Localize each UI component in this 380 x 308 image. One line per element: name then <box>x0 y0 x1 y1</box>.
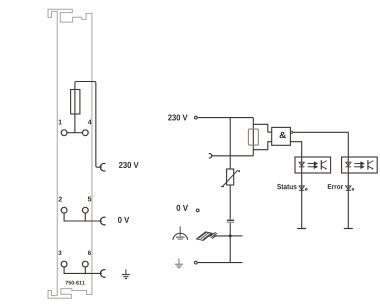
wire through Status box <box>301 157 303 229</box>
label 750-611 <box>66 281 85 285</box>
capacitor C1 <box>227 219 234 221</box>
label 230 V (input) <box>168 115 187 121</box>
light arrows inside Status box <box>308 162 318 168</box>
node: ground terminal circle <box>195 261 198 264</box>
phototransistor inside Error box <box>368 160 374 169</box>
terminal 1 <box>61 130 67 136</box>
wire: bottom tap to AND gate input 2 <box>253 142 271 150</box>
terminal 5 <box>82 207 88 213</box>
wire: 230V input to rectifier block <box>198 117 254 119</box>
wire: junction to power jumper contact icon <box>214 235 230 237</box>
LED inside Error box <box>346 162 351 167</box>
LED inside Status box <box>299 162 304 167</box>
pin number 6 <box>88 251 91 256</box>
AND gate U1 <box>272 127 291 145</box>
node: junction dot <box>229 234 232 237</box>
terminal 4 <box>82 130 88 136</box>
ground symbol (functional earth, left) <box>175 259 183 268</box>
bus end bar Status <box>297 228 306 230</box>
wire: right branch through fuse F2 <box>252 118 254 156</box>
wire: top tap to AND gate input 1 <box>253 124 271 132</box>
light arrows inside Error box <box>354 162 364 168</box>
earth symbol at module output <box>122 269 130 278</box>
fuse F2 <box>248 129 258 145</box>
pin number 3 <box>58 251 61 256</box>
connector hook 230V output <box>100 163 105 171</box>
pin number 4 <box>88 120 92 125</box>
power jumper contact icon <box>197 232 218 241</box>
pin number 5 <box>88 197 92 202</box>
module body outline top (750-611 housing contour) <box>48 9 92 295</box>
terminal 6 <box>82 261 88 267</box>
connector hook small (L input from module) <box>209 154 212 158</box>
wire: ground row horizontal <box>198 262 243 264</box>
terminal 2 <box>61 207 67 213</box>
label 0 V (reference) <box>177 205 189 211</box>
wire: jumper terminal 1 to 4 <box>67 132 82 134</box>
connector hook 0V output <box>100 217 105 225</box>
pin number 1 <box>59 120 62 125</box>
wire: terminals 2/5 to 0V hook <box>64 214 102 222</box>
node: 0V terminal circle <box>196 209 199 212</box>
label Status <box>277 184 297 189</box>
wire: AND output to Error optocoupler <box>293 132 349 157</box>
wire: capacitor to junction <box>229 223 231 263</box>
label 230 V (module output) <box>119 162 139 168</box>
LED indicator Status <box>299 186 307 190</box>
LED indicator Error <box>346 186 354 190</box>
wire: small hook to node at rect bottom <box>211 155 254 157</box>
optocoupler box Error <box>342 157 378 173</box>
wire: AND output 2 to Status optocoupler <box>291 142 302 157</box>
pin number 2 <box>59 197 62 202</box>
node: AND gate output circle <box>291 131 293 133</box>
wire: fuse top to 230V tap <box>75 82 102 168</box>
fuse F1 inside module <box>71 90 80 115</box>
wire: junction stub right <box>230 235 242 237</box>
wire: varistor to capacitor <box>229 185 231 220</box>
wire: terminals 3/6 to earth hook <box>64 267 102 273</box>
optocoupler box Status <box>295 157 331 173</box>
varistor RV1 <box>227 169 234 185</box>
label 0 V (module output) <box>118 217 129 223</box>
terminal 3 <box>61 261 67 267</box>
shield connection symbol <box>173 226 188 240</box>
wire: left branch down to varistor <box>229 118 231 169</box>
label Error <box>328 184 343 189</box>
node: 230V input terminal circle <box>195 116 198 119</box>
connector hook earth output <box>100 270 105 278</box>
wire through Error box <box>347 157 349 229</box>
phototransistor inside Status box <box>321 160 327 169</box>
bus end bar Error <box>344 228 353 230</box>
module body outline bottom foot <box>48 289 92 299</box>
